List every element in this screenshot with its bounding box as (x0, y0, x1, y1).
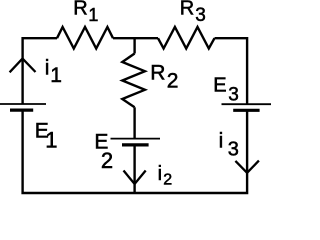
battery E3 thick plate (233, 109, 259, 112)
svg-text:2: 2 (163, 172, 172, 189)
svg-text:3: 3 (195, 5, 206, 26)
wire: top middle segment between R1 and R3 (113, 37, 158, 39)
battery E2 thick plate (122, 143, 149, 146)
svg-text:1: 1 (88, 5, 98, 25)
wire: top-left corner + left upper wire (23, 38, 57, 104)
wire: right lower wire + bottom wire + left lower wire (23, 110, 248, 193)
svg-text:i: i (219, 129, 224, 152)
svg-text:1: 1 (50, 64, 62, 87)
resistor R3 (158, 27, 215, 49)
resistor R2 (122, 54, 145, 108)
svg-text:i: i (45, 57, 50, 80)
wire: top-right corner + right upper wire (215, 38, 248, 104)
current arrow i1 (up) (10, 59, 36, 73)
svg-text:R: R (73, 0, 87, 20)
current arrow i3 (down) (235, 161, 259, 173)
svg-text:R: R (180, 0, 194, 20)
svg-text:2: 2 (101, 148, 113, 173)
svg-text:3: 3 (228, 138, 239, 160)
resistor R1 (57, 27, 113, 49)
current arrow i2 (down) (124, 171, 146, 185)
battery E1 thick plate (10, 108, 33, 111)
svg-text:R: R (150, 62, 165, 85)
svg-text:E: E (213, 75, 226, 97)
svg-text:3: 3 (228, 85, 239, 106)
wire: middle branch lower lead to bottom wire (133, 145, 135, 193)
battery E1 thin plate (0, 103, 46, 105)
battery E2 thin plate (111, 138, 161, 140)
svg-text:2: 2 (167, 70, 179, 93)
wire: middle branch lead to E2 (133, 107, 135, 138)
battery E3 thin plate (222, 103, 272, 105)
svg-text:1: 1 (45, 128, 57, 153)
svg-text:i: i (158, 163, 162, 185)
wire: middle branch upper lead (133, 38, 135, 53)
